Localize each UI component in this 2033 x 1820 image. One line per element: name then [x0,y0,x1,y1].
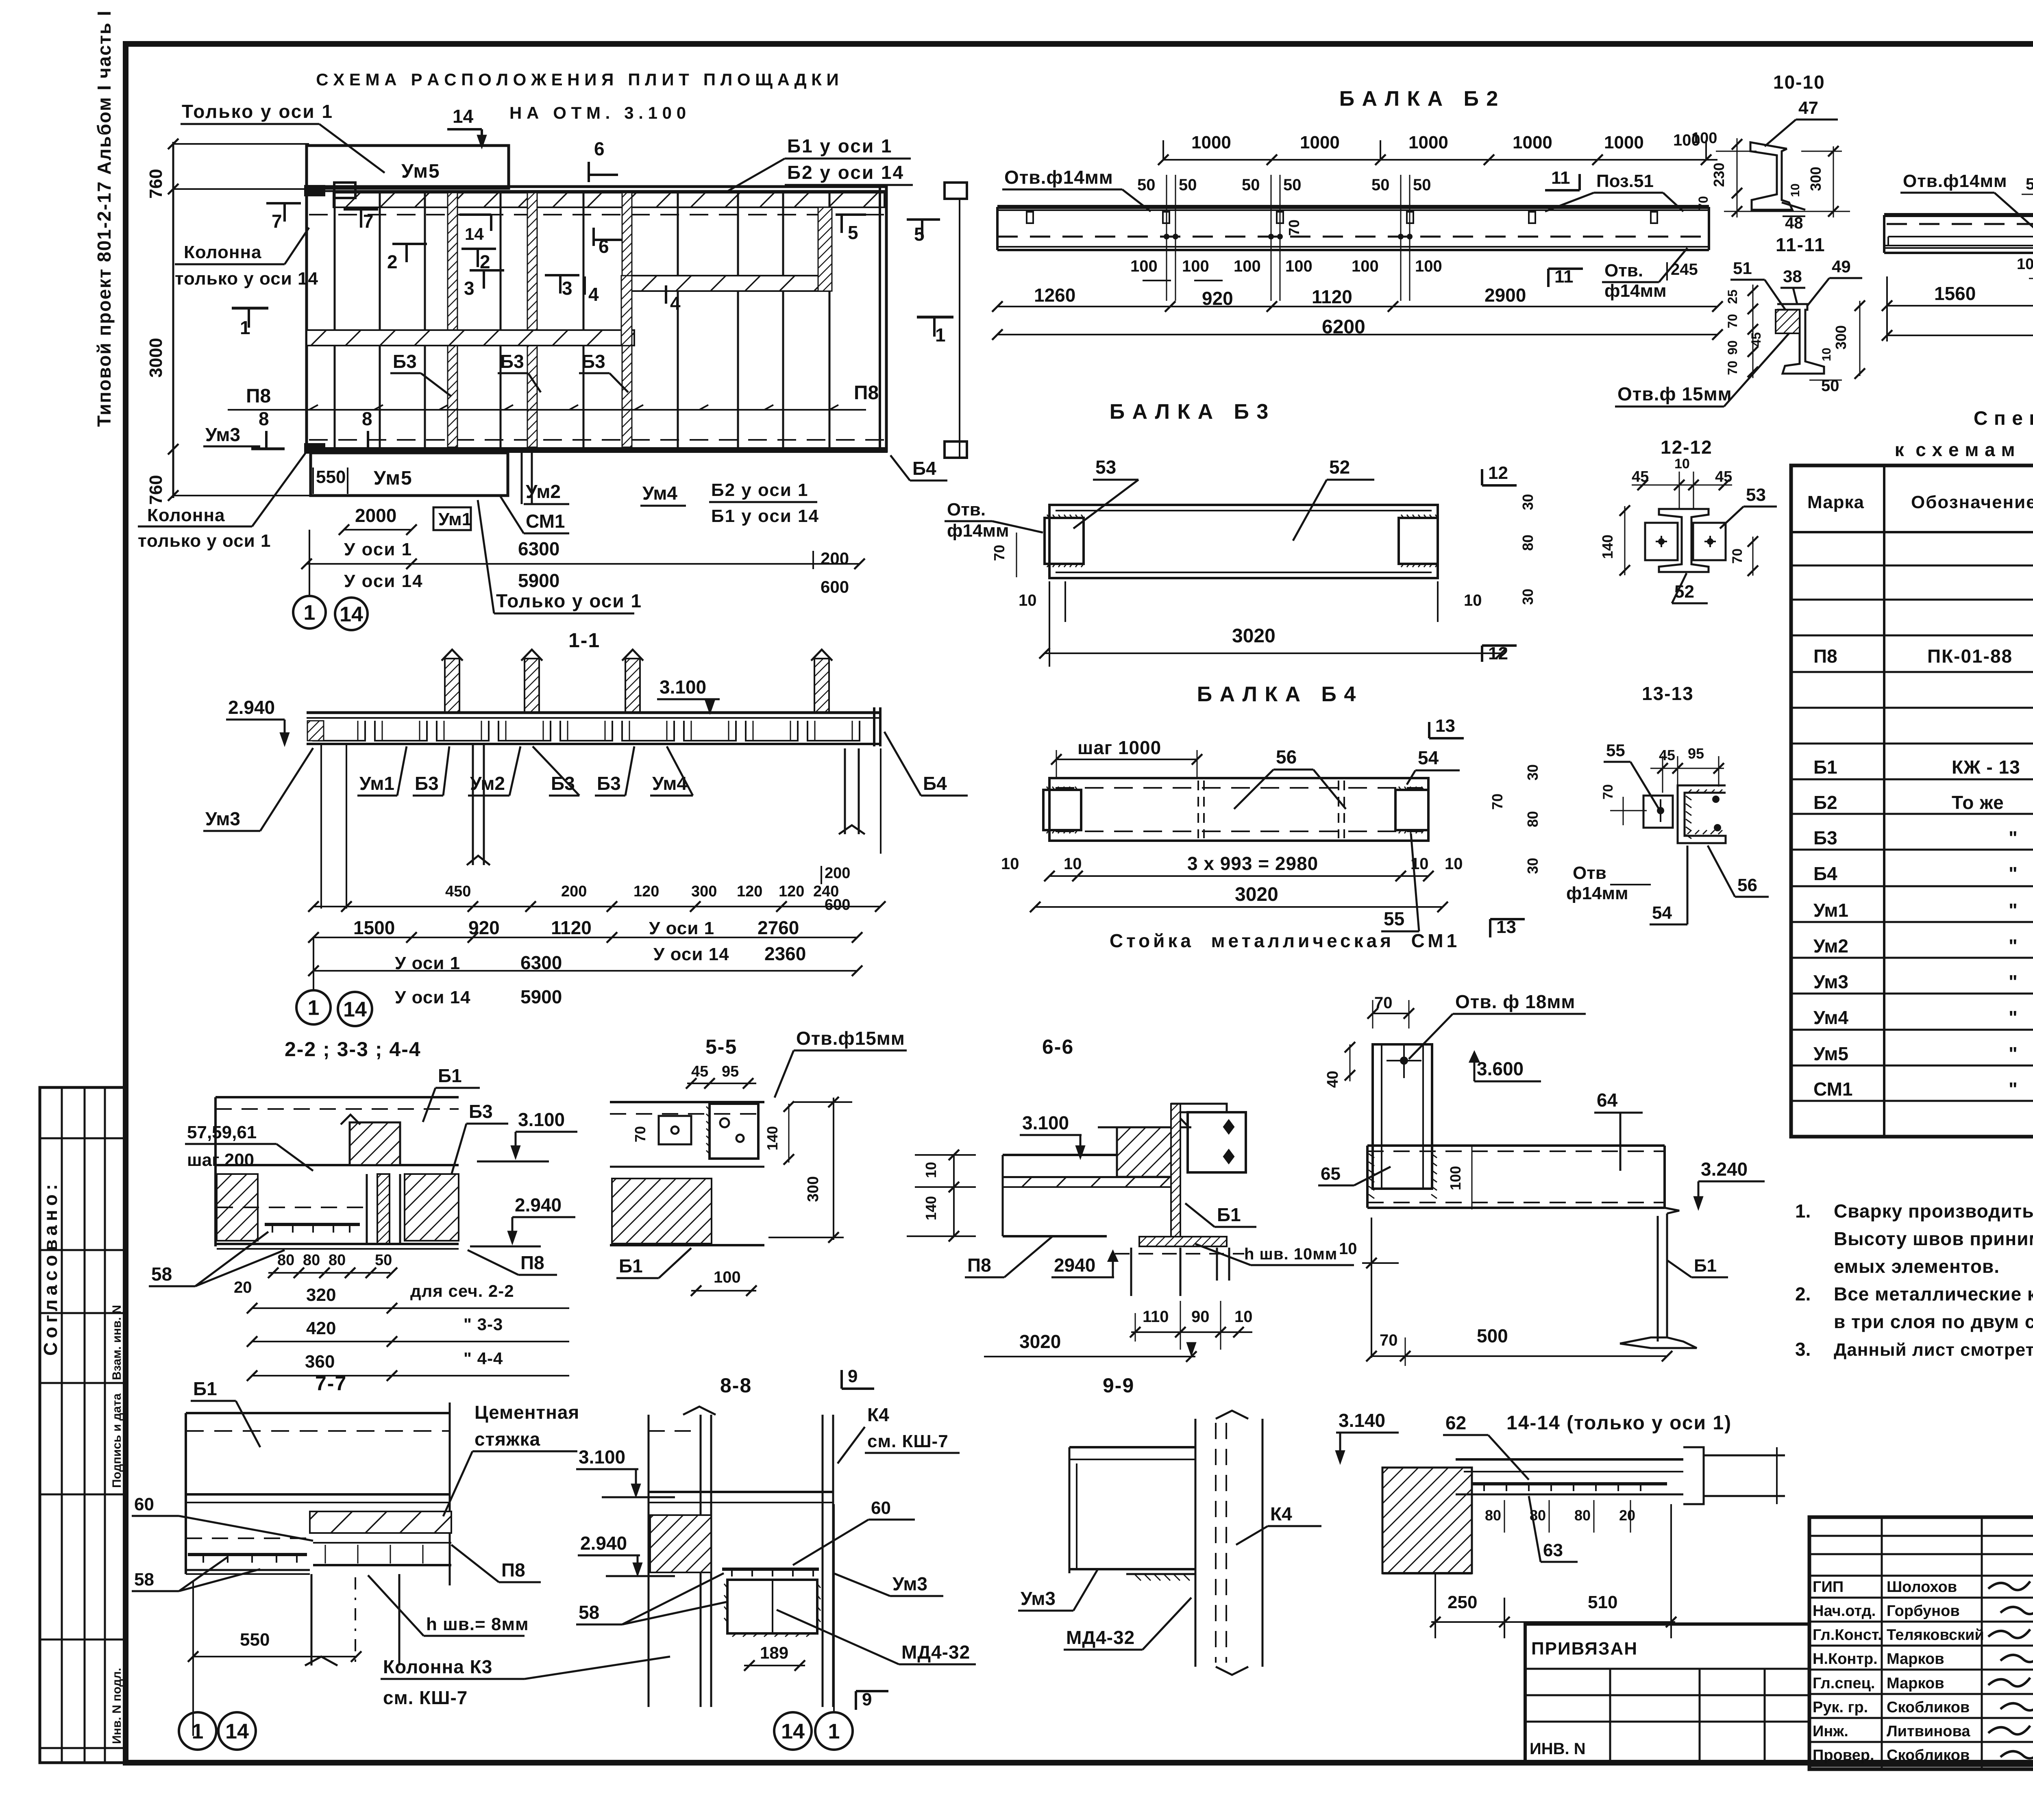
svg-text:189: 189 [760,1643,788,1662]
spec table column lines [1883,465,1885,1137]
section 5-5 angle plate with holes [710,1104,758,1159]
section 2-2 hatched column above [350,1122,400,1165]
svg-text:ф14мм: ф14мм [1604,281,1667,301]
svg-text:Ум1: Ум1 [438,509,472,529]
svg-text:Стойка металлическая СМ1: Стойка металлическая СМ1 [1110,930,1460,951]
svg-text:Теляковский: Теляковский [1887,1626,1984,1644]
svg-text:10: 10 [1001,855,1019,873]
beam Б2 top dim line 1000x5 [1163,159,1717,161]
beam Б2 stud rectangles on top [1027,212,1033,223]
svg-text:см. КШ-7: см. КШ-7 [867,1431,949,1451]
beam Б4 left end pad [1043,790,1081,830]
svg-text:шаг 200: шаг 200 [187,1150,254,1170]
svg-text:3.140: 3.140 [1339,1410,1385,1431]
svg-text:47: 47 [1798,98,1818,118]
svg-text:1: 1 [828,1720,840,1744]
svg-text:5-5: 5-5 [705,1035,737,1058]
svg-text:50: 50 [2026,175,2033,193]
svg-text:6-6: 6-6 [1042,1035,1074,1058]
beam Б3 body [1049,505,1438,578]
svg-text:80: 80 [329,1252,346,1269]
svg-text:100: 100 [2017,256,2033,273]
stamp row Н.Контр. [1809,1669,2033,1671]
svg-text:для сеч. 2-2: для сеч. 2-2 [410,1281,514,1300]
svg-text:70: 70 [1730,548,1745,564]
plan hatched strip column 3 [622,193,632,447]
svg-text:1120: 1120 [551,917,592,938]
axis circles 8-8 [774,1712,812,1750]
svg-text:7: 7 [363,211,374,232]
svg-text:2.: 2. [1795,1283,1811,1305]
svg-text:3: 3 [464,278,475,299]
svg-text:1500: 1500 [353,917,395,938]
stamp row Гл.спец. [1809,1693,2033,1695]
svg-text:Скобликов: Скобликов [1887,1747,1970,1764]
svg-text:У оси 14: У оси 14 [344,571,423,591]
svg-text:120: 120 [633,883,659,900]
main stamp vertical lines [1881,1517,1883,1769]
plan hatched strip column 2 [527,193,537,447]
svg-text:12-12: 12-12 [1661,437,1713,458]
section 1-1 right edge channel [873,707,875,746]
stamp row Провер. [1809,1765,2033,1767]
svg-text:2: 2 [387,251,398,272]
svg-text:Ум4: Ум4 [642,483,677,504]
svg-text:Б3: Б3 [393,351,417,372]
stand CM1 weld ticks at post base [1369,1154,1374,1158]
svg-text:13: 13 [1435,716,1455,736]
section 2-2 dashed line mid [217,1207,366,1208]
svg-text:3 х 993 = 2980: 3 х 993 = 2980 [1187,853,1318,874]
svg-text:200: 200 [825,865,850,882]
svg-text:140: 140 [764,1126,781,1150]
svg-text:У оси 14: У оси 14 [653,944,729,964]
svg-text:7: 7 [272,211,282,232]
svg-text:Ум3: Ум3 [1813,971,1848,992]
svg-text:1000: 1000 [1408,133,1448,152]
main stamp outer [1809,1517,2033,1769]
svg-text:Б А Л К А Б 3: Б А Л К А Б 3 [1110,400,1269,424]
svg-text:Высоту швов принимать по наим: Высоту швов принимать по наименьшей толщ… [1834,1228,2033,1249]
beam Б3 left end pad [1045,518,1084,564]
svg-text:2760: 2760 [757,917,799,938]
svg-text:1-1: 1-1 [568,629,600,652]
svg-text:ИНВ. N: ИНВ. N [1530,1740,1586,1758]
svg-text:10: 10 [1234,1308,1253,1326]
svg-text:10: 10 [1339,1240,1357,1258]
svg-text:Сварку производить электродами: Сварку производить электродами Э42 по ГО… [1834,1200,2033,1222]
svg-text:h шв. 10мм: h шв. 10мм [1244,1245,1337,1263]
svg-text:100: 100 [1285,257,1313,275]
svg-text:в три слоя по двум слоям гру: в три слоя по двум слоям грунтовки ХС-01… [1834,1311,2033,1332]
section 2-2 I-beam center [366,1174,368,1244]
section 1-1 witness lines left [320,744,322,909]
svg-text:Колонна: Колонна [147,505,225,525]
svg-text:Отв. ф 18мм: Отв. ф 18мм [1455,991,1575,1012]
svg-text:70: 70 [1286,220,1302,236]
svg-text:50: 50 [1242,176,1260,194]
svg-text:5900: 5900 [520,986,562,1007]
section 1-1 channel plates row [313,721,365,741]
beam Б1 plate segments with notches [1888,236,2033,237]
svg-text:Отв.ф 15мм: Отв.ф 15мм [1617,383,1732,404]
svg-text:54: 54 [1418,747,1439,768]
axis circles 7-7 [179,1712,216,1750]
plan hatched strip column 1 [448,193,457,447]
svg-text:53: 53 [1095,457,1116,478]
svg-text:СМ1: СМ1 [1813,1079,1853,1100]
section 6-6 slab body bottom [1003,1235,1107,1237]
stand CM1 vertical post [1373,1044,1432,1189]
svg-text:54: 54 [1652,903,1672,923]
svg-text:5900: 5900 [518,570,559,591]
svg-text:10: 10 [1789,183,1802,197]
svg-text:100: 100 [1691,130,1717,147]
section 1-1 slab bottom line [307,743,880,745]
svg-text:только у оси 14: только у оси 14 [175,269,318,289]
plan outline [307,187,886,451]
svg-text:70: 70 [632,1126,649,1142]
svg-text:3.100: 3.100 [518,1109,565,1130]
svg-text:7-7: 7-7 [315,1372,347,1395]
svg-text:Б2 у оси 1: Б2 у оси 1 [711,480,809,500]
svg-text:": " [2009,900,2018,921]
plan corner pad top left [334,183,355,198]
spec table outer box [1791,465,2033,1137]
svg-text:80: 80 [1574,1507,1591,1524]
plan corner pad top right [945,183,967,199]
svg-text:140: 140 [1599,535,1616,559]
svg-text:У оси 14: У оси 14 [395,987,471,1007]
section 11-11 dims left [1752,285,1754,378]
svg-text:3.100: 3.100 [1022,1112,1069,1133]
svg-text:": " [2009,971,2018,992]
svg-text:см. КШ-7: см. КШ-7 [383,1687,468,1708]
svg-text:95: 95 [722,1063,739,1080]
svg-text:стяжка: стяжка [475,1429,540,1450]
section 13-13 hatch ticks inside channel [1686,796,1691,800]
svg-text:420: 420 [306,1318,336,1338]
svg-text:95: 95 [1688,745,1704,762]
axis circle 14 [335,598,368,630]
svg-text:2.940: 2.940 [228,697,275,718]
svg-text:600: 600 [825,896,850,913]
svg-text:Ум5: Ум5 [401,161,440,182]
svg-text:Б4: Б4 [1813,863,1837,884]
svg-text:3.600: 3.600 [1477,1058,1524,1079]
plan right edge double line [879,187,881,453]
svg-text:Подпись и дата: Подпись и дата [110,1393,124,1488]
svg-text:Б1 у оси 14: Б1 у оси 14 [711,506,819,526]
svg-text:Обозначение: Обозначение [1911,492,2033,512]
svg-text:51: 51 [1733,259,1752,278]
stamp row Инж. [1809,1741,2033,1743]
svg-text:Б3: Б3 [415,773,439,794]
svg-text:2.940: 2.940 [580,1533,627,1554]
beam Б2 bolt dots [1164,234,1169,239]
svg-text:80: 80 [1519,535,1536,551]
section 2-2 rebar plate [265,1223,360,1226]
svg-text:550: 550 [240,1630,270,1650]
svg-text:1: 1 [304,601,316,625]
svg-text:Ум5: Ум5 [374,468,413,489]
section 1-1 posts under slab [472,744,474,865]
svg-text:58: 58 [151,1263,172,1285]
section 2-2 lower right concrete [405,1174,459,1241]
svg-text:120: 120 [737,883,762,900]
svg-text:50: 50 [1371,176,1390,194]
svg-text:3000: 3000 [146,338,166,378]
svg-text:49: 49 [1832,257,1851,276]
svg-text:Б3: Б3 [1813,827,1837,848]
svg-text:2940: 2940 [1054,1255,1095,1276]
svg-text:250: 250 [1447,1592,1477,1612]
svg-text:40: 40 [1324,1071,1341,1088]
plan middle hatched band left [307,330,634,346]
svg-text:Б3: Б3 [469,1101,493,1122]
section 6-6 slab [1003,1154,1171,1156]
svg-text:80: 80 [1485,1507,1501,1524]
beam Б2 body [997,205,1709,209]
svg-text:25: 25 [1725,289,1740,304]
svg-text:14: 14 [781,1720,805,1744]
spec table row lines [1791,565,2033,567]
svg-text:450: 450 [445,883,471,900]
plan top edge inner line [307,190,886,192]
svg-text:10: 10 [1064,855,1082,873]
section 7-7 left lower slab [186,1537,309,1539]
stamp row Рук. гр. [1809,1717,2033,1719]
section 1-1 left edge small hatch [307,721,324,741]
svg-text:Б1: Б1 [619,1255,643,1276]
svg-text:Б3: Б3 [597,773,621,794]
svg-text:Рук. гр.: Рук. гр. [1813,1699,1868,1716]
svg-text:Ум4: Ум4 [1813,1007,1848,1028]
svg-text:5: 5 [848,222,858,243]
svg-text:60: 60 [134,1494,154,1514]
section 5-5 slab band [610,1101,764,1103]
stand CM1 channel foot [1620,1337,1697,1348]
svg-text:Б1: Б1 [1217,1204,1241,1225]
axis circle 1 [293,596,326,628]
svg-text:10-10: 10-10 [1773,72,1825,93]
Ум5 block top [307,146,509,188]
svg-text:14: 14 [340,603,363,626]
svg-text:Поз.51: Поз.51 [1596,171,1654,191]
svg-text:2-2 ; 3-3 ; 4-4: 2-2 ; 3-3 ; 4-4 [285,1038,421,1061]
svg-text:П8: П8 [246,385,271,407]
section 9-9 beam lines left [1069,1446,1195,1448]
svg-text:50: 50 [1179,176,1197,194]
svg-text:300: 300 [691,883,717,900]
svg-text:Марка: Марка [1807,492,1864,512]
svg-text:3020: 3020 [1235,884,1278,905]
beam Б4 right end pad [1395,790,1428,830]
svg-text:10: 10 [1445,855,1463,873]
svg-text:70: 70 [1380,1331,1398,1349]
svg-text:45: 45 [1749,332,1763,347]
label Ум1 boxed [433,507,471,530]
section 2-2 lower left concrete [217,1174,258,1241]
svg-text:110: 110 [1143,1308,1169,1326]
svg-text:100: 100 [1234,257,1261,275]
svg-text:Б4: Б4 [923,773,947,794]
svg-text:6300: 6300 [518,538,559,559]
svg-text:1000: 1000 [1191,133,1231,152]
section 9-9 gusset hatch [1126,1574,1195,1642]
svg-text:30: 30 [1524,764,1541,781]
svg-text:8: 8 [259,408,269,429]
svg-text:С Х Е М А Р А С П О Л О Ж Е: С Х Е М А Р А С П О Л О Ж Е Н И Я П Л И … [316,70,838,89]
svg-text:70: 70 [1600,784,1616,800]
svg-text:Провер.: Провер. [1813,1747,1874,1764]
svg-text:920: 920 [468,917,500,938]
svg-text:50: 50 [375,1252,392,1269]
svg-text:Колонна К3: Колонна К3 [383,1656,492,1677]
svg-text:Б2: Б2 [1813,792,1837,813]
section 8-8 rebar line [722,1568,819,1571]
svg-text:Колонна: Колонна [184,242,262,262]
svg-text:10: 10 [923,1162,939,1178]
svg-text:14: 14 [453,106,474,127]
svg-text:14-14 (только у оси 1): 14-14 (только у оси 1) [1506,1412,1732,1434]
svg-text:60: 60 [871,1498,891,1518]
svg-text:К4: К4 [1270,1503,1292,1524]
svg-text:Все металлические конструкции: Все металлические конструкции окрасить л… [1834,1283,2033,1305]
svg-text:П8: П8 [501,1559,525,1581]
svg-text:Отв.: Отв. [1604,261,1643,281]
svg-text:": " [2009,1007,2018,1028]
svg-text:Ум5: Ум5 [1813,1043,1848,1064]
svg-text:": " [2009,1043,2018,1064]
svg-text:1: 1 [192,1720,204,1744]
svg-text:Литвинова: Литвинова [1887,1723,1970,1740]
section 12-12 side pad left [1645,523,1678,560]
svg-text:3.240: 3.240 [1701,1159,1748,1180]
svg-text:П8: П8 [520,1252,544,1273]
svg-text:ПК-01-88: ПК-01-88 [1927,646,2013,667]
svg-text:С п е ц и ф и к а ц и я э л: С п е ц и ф и к а ц и я э л е м е н т о … [1974,408,2033,429]
svg-text:510: 510 [1588,1592,1617,1612]
plan middle hatched band right (higher) [631,276,830,291]
svg-text:58: 58 [579,1602,599,1623]
svg-text:62: 62 [1445,1412,1466,1433]
svg-text:760: 760 [146,475,166,504]
section 7-7 cement screed hatched [310,1511,451,1533]
plan bottom dashed line [309,439,884,441]
svg-text:90: 90 [1725,340,1740,355]
svg-text:МД4-32: МД4-32 [1066,1627,1135,1648]
svg-text:То же: То же [1952,792,2004,813]
svg-text:Отв: Отв [1573,863,1606,883]
svg-text:только у оси 1: только у оси 1 [138,531,271,551]
svg-text:1000: 1000 [1513,133,1552,152]
title block Привязан box [1525,1624,1809,1764]
svg-text:Горбунов: Горбунов [1887,1603,1960,1620]
svg-text:Б А Л К А Б 2: Б А Л К А Б 2 [1339,87,1499,111]
svg-text:63: 63 [1543,1540,1563,1560]
section 1-1 hatched columns [445,659,459,713]
stamp signatures squiggles [1988,1581,2030,1590]
svg-text:45: 45 [691,1063,708,1080]
svg-text:100: 100 [1182,257,1209,275]
svg-text:500: 500 [1477,1325,1508,1346]
svg-text:Б1: Б1 [1813,757,1837,778]
svg-text:56: 56 [1276,746,1297,768]
svg-text:58: 58 [134,1570,154,1590]
svg-text:": " [2009,1079,2018,1100]
svg-text:55: 55 [1384,908,1404,929]
plan top dashed line [309,214,884,215]
section 6-6 lower bracket [1130,1248,1132,1296]
svg-text:120: 120 [779,883,804,900]
svg-text:" 4-4: " 4-4 [464,1349,503,1368]
svg-text:У оси 1: У оси 1 [344,539,412,559]
left dimension line of plan [172,142,174,498]
svg-text:320: 320 [306,1285,336,1305]
stamp row ГИП [1809,1597,2033,1599]
svg-text:КЖ - 13: КЖ - 13 [1952,757,2020,778]
section 6-6 plate with diamond bolts [1188,1112,1246,1172]
svg-text:64: 64 [1597,1089,1618,1111]
svg-text:80: 80 [1524,811,1541,827]
plan P8 line ticks [309,405,318,410]
plan hatched connector [621,276,632,346]
svg-text:Ум3: Ум3 [205,424,240,445]
beam Б1 body [1884,213,2033,217]
section 5-5 lower concrete [612,1179,712,1244]
section 5-5 bolt square left [659,1116,691,1144]
stand CM1 bottom channel Б1 [1657,1216,1659,1342]
svg-text:Б3: Б3 [500,351,524,372]
svg-text:3020: 3020 [1232,625,1276,647]
plan column blob top left [304,185,325,196]
section 1-1 right posts under slab [844,748,846,834]
svg-text:38: 38 [1783,267,1802,286]
section 8-8 concrete hatch [650,1515,711,1572]
svg-text:3.100: 3.100 [660,676,706,698]
svg-text:Шолохов: Шолохов [1887,1579,1957,1596]
svg-text:Гл.спец.: Гл.спец. [1813,1675,1875,1692]
svg-text:70: 70 [1696,196,1711,211]
svg-text:Б1 у оси 1: Б1 у оси 1 [787,135,893,157]
svg-text:1000: 1000 [1604,133,1644,152]
svg-text:h шв.= 8мм: h шв.= 8мм [426,1614,529,1634]
svg-text:14: 14 [465,224,484,244]
svg-text:80: 80 [277,1252,294,1269]
svg-text:50: 50 [1283,176,1302,194]
svg-text:245: 245 [1671,261,1698,278]
svg-text:80: 80 [303,1252,320,1269]
svg-text:У оси 1: У оси 1 [649,918,714,938]
svg-text:1560: 1560 [1934,283,1976,304]
svg-text:К4: К4 [867,1404,889,1425]
svg-text:шаг 1000: шаг 1000 [1077,737,1161,758]
svg-text:3020: 3020 [1019,1331,1061,1352]
svg-text:Скобликов: Скобликов [1887,1699,1970,1716]
svg-text:емых элементов.: емых элементов. [1834,1256,2000,1277]
svg-text:" 3-3: " 3-3 [464,1315,503,1334]
title block Привязан grid [1609,1669,1611,1764]
svg-text:50: 50 [1413,176,1431,194]
leader to plan top [728,159,785,191]
section 13-13 channel [1678,785,1726,843]
section 6-6 bottom flange hatched [1139,1237,1227,1246]
svg-text:Марков: Марков [1887,1650,1944,1668]
stamp top empty rows [1809,1535,2033,1537]
svg-text:": " [2009,935,2018,957]
svg-text:2900: 2900 [1484,285,1526,306]
